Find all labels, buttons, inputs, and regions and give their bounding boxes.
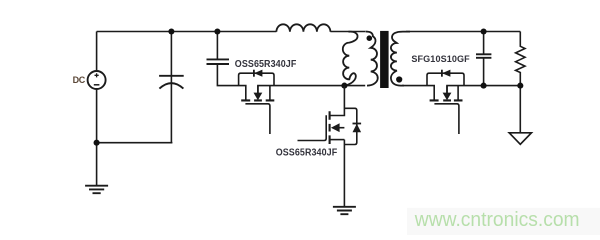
node junction dot secondary top rail [481,28,487,34]
svg-text:DC: DC [73,75,86,85]
wire resistor to ground [519,86,521,133]
ground (output, triangle style) [509,133,531,145]
mosfet Q3 body-diode loop [427,73,464,85]
ground (Q2 source) [333,207,356,214]
transformer T1 primary phase dot [367,35,373,41]
transformer T1 primary left winding [343,32,358,86]
node junction dots output bottom rail [481,83,487,89]
capacitor C1 (electrolytic input cap) [170,32,172,76]
wire top rail [97,31,277,33]
mosfet Q3 gate [434,104,459,134]
inductor L1 [276,24,330,31]
mosfet Q1 gate [245,104,270,134]
wire Q3 source to output rail [447,86,520,93]
mosfet Q2 channel and contacts [329,111,331,144]
wire Q2 source lead [343,140,345,207]
wire secondary bottom to Q3 drain [402,86,434,101]
diode D1 (Q1 body diode) [253,70,255,77]
wire Q1 source to transformer primary bottom [258,86,365,93]
transformer T1 primary right winding [366,32,378,86]
watermark band [407,208,600,235]
node junction dots top rail [168,28,174,34]
capacitor C2 (clamp cap) [216,32,218,60]
transformer T1 secondary phase dot [396,76,402,82]
svg-text:www.cntronics.com: www.cntronics.com [414,209,580,231]
mosfet Q3 channel and contacts [430,99,463,101]
DC source V1 [96,32,98,72]
transformer T1 core [380,31,389,88]
mosfet Q1 body-diode loop [239,73,274,85]
svg-text:SFG10S10GF: SFG10S10GF [411,54,469,65]
wire C2 to Q1 drain [217,64,245,100]
mosfet Q2 gate [298,115,327,140]
svg-text:OSS65R340JF: OSS65R340JF [235,59,297,70]
svg-text:OSS65R340JF: OSS65R340JF [276,148,338,159]
capacitor C3 (output cap) [483,32,485,55]
node A (Q1 source / primary bottom / Q2 drain junction) [341,83,347,89]
node junction dot bottom left rail [94,140,100,146]
diode D2 (Q2 body diode) loop [344,108,356,144]
resistor R1 (load) [516,32,525,86]
wire secondary top rail [406,31,520,33]
mosfet Q1 channel and contacts [241,99,274,101]
ground (DC source) [96,143,98,186]
transformer T1 secondary winding [391,32,410,86]
wire top rail right of inductor to transformer primary [330,31,365,33]
wire bottom left rail [97,142,173,144]
wire Q2 drain [330,86,345,116]
diode D3 (Q3 body diode) [441,70,443,77]
